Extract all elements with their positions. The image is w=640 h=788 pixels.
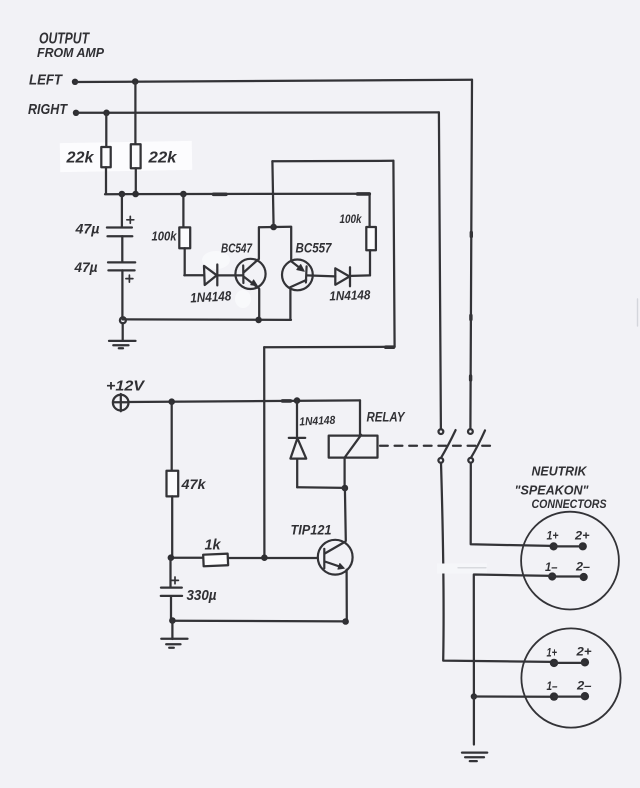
diode D3 1N4148 flyback bbox=[289, 401, 345, 488]
pin dot J2 2+ bbox=[581, 658, 589, 666]
white-out blob near Q1 lead bbox=[235, 290, 251, 308]
wire LEFT output line bbox=[75, 80, 472, 82]
svg-text:100k: 100k bbox=[340, 212, 363, 226]
speakon connector J1 (top) bbox=[521, 512, 619, 610]
white-out blob near D1 bbox=[202, 251, 230, 269]
wire Q3 emitter down bbox=[345, 570, 347, 622]
wire J1 1- to ground rail bbox=[474, 575, 552, 697]
wire S2 to top speakon 1+ bbox=[471, 463, 551, 546]
wire J1 1+ to 2+ bbox=[554, 545, 583, 547]
svg-text:FROM AMP: FROM AMP bbox=[37, 46, 105, 60]
wire emitter bus bbox=[122, 318, 291, 321]
pen blob on bus (left) bbox=[214, 193, 227, 197]
junction dot on LEFT line bbox=[132, 78, 139, 85]
wire LEFT vertical drop to relay contact S2 bbox=[470, 80, 472, 430]
svg-text:47k: 47k bbox=[180, 477, 207, 492]
wire RIGHT output line bbox=[76, 111, 439, 114]
svg-text:"SPEAKON": "SPEAKON" bbox=[515, 484, 590, 498]
junction dot R5/R6/C3 bbox=[168, 554, 175, 561]
svg-text:1N4148: 1N4148 bbox=[329, 287, 371, 303]
pen nubs on LEFT drop wire bbox=[469, 233, 473, 381]
svg-text:RIGHT: RIGHT bbox=[28, 102, 68, 118]
svg-text:2–: 2– bbox=[576, 679, 592, 693]
white-out streak near speakon wires bbox=[437, 564, 487, 574]
wire relay bottom lead bbox=[343, 458, 345, 488]
resistor R3 100k (left) bbox=[179, 194, 190, 275]
pin dot J2 1- bbox=[550, 692, 558, 700]
svg-text:2+: 2+ bbox=[574, 529, 590, 543]
wire RIGHT vertical drop to relay contact S1 bbox=[439, 112, 441, 429]
terminal dot LEFT input bbox=[72, 79, 78, 85]
wire ground rail down bbox=[473, 697, 475, 745]
speakon connector J2 (bottom) bbox=[521, 628, 620, 727]
label OUTPUT FROM AMP bbox=[37, 31, 105, 61]
wire +12V rail bbox=[128, 400, 360, 402]
faint scan artifact right edge bbox=[637, 299, 639, 326]
svg-text:1k: 1k bbox=[205, 538, 222, 554]
svg-text:1N4148: 1N4148 bbox=[190, 288, 232, 305]
ground symbol (middle) bbox=[161, 639, 187, 648]
relay contact S1 (right channel) bbox=[438, 429, 455, 463]
wire right vertical feedback bbox=[393, 161, 394, 347]
pen blob on bus (right) bbox=[358, 192, 370, 196]
junction dot rail/R5 bbox=[168, 398, 175, 405]
pin dot J1 2- bbox=[580, 573, 588, 581]
wire Q2 collector down bbox=[289, 289, 291, 320]
relay K1 coil box bbox=[329, 435, 378, 458]
svg-text:47µ: 47µ bbox=[74, 222, 99, 237]
svg-text:330µ: 330µ bbox=[187, 588, 218, 604]
junction dot ground rail bbox=[471, 693, 477, 699]
junction dot bus/R3 bbox=[180, 191, 187, 198]
wire summing bus bbox=[105, 193, 370, 196]
wire collector bracket bbox=[259, 226, 290, 229]
wire Q2 emitter up bbox=[290, 227, 292, 261]
pin dot J1 1+ bbox=[550, 542, 558, 550]
ground symbol (right) bbox=[462, 753, 487, 762]
wire Q1 collector up bbox=[258, 227, 260, 259]
junction dot relay/D3/Q3 bbox=[342, 485, 349, 492]
diode D2 1N4148 (right) bbox=[307, 267, 370, 286]
svg-text:1N4148: 1N4148 bbox=[299, 415, 336, 429]
wire top feedback line bbox=[272, 160, 393, 163]
pin dot J2 2- bbox=[581, 692, 589, 700]
dashed mechanical link relay to contacts bbox=[378, 445, 492, 447]
wire rail drop to relay bbox=[359, 400, 361, 435]
transistor Q3 TIP121 bbox=[318, 540, 353, 575]
svg-text:47µ: 47µ bbox=[73, 260, 97, 275]
plus mark C2 bbox=[126, 275, 133, 282]
svg-text:1+: 1+ bbox=[547, 529, 559, 543]
svg-text:RELAY: RELAY bbox=[367, 410, 407, 425]
svg-text:2–: 2– bbox=[575, 560, 590, 574]
junction dot base node / feedback bbox=[261, 554, 268, 561]
svg-text:1+: 1+ bbox=[547, 646, 558, 660]
power symbol +12V bbox=[113, 394, 129, 411]
wire bracket riser bbox=[272, 161, 273, 227]
capacitor C2 47u (bottom) bbox=[108, 236, 135, 317]
pin dot J2 1+ bbox=[550, 659, 558, 667]
resistor R1 22k (left) bbox=[101, 113, 110, 194]
pin dot J1 1- bbox=[548, 572, 556, 580]
wire to ground (middle) bbox=[171, 621, 173, 640]
pen blob at feedback corner bbox=[386, 345, 394, 349]
junction dot Q1 emitter / bus bbox=[255, 317, 262, 324]
transistor Q1 BC547 bbox=[235, 259, 265, 289]
resistor R4 100k (right) bbox=[366, 194, 376, 276]
capacitor C1 47u (top) bbox=[107, 194, 132, 236]
wire feedback mid horizontal bbox=[264, 346, 394, 349]
white-out patch behind 22k labels bbox=[60, 141, 192, 172]
wire emitter ground return bbox=[172, 620, 345, 623]
junction dot on RIGHT line bbox=[103, 110, 110, 117]
svg-text:1–: 1– bbox=[545, 560, 558, 574]
terminal dot RIGHT input bbox=[73, 110, 79, 116]
junction dot emitter/ground line bbox=[342, 618, 349, 625]
svg-text:TIP121: TIP121 bbox=[291, 523, 332, 538]
svg-text:2+: 2+ bbox=[575, 645, 591, 659]
wire to ground (left) bbox=[122, 323, 124, 341]
wire Q1 emitter down bbox=[258, 289, 260, 320]
svg-text:LEFT: LEFT bbox=[29, 73, 63, 89]
capacitor C3 330u bbox=[161, 558, 182, 621]
faint erased line residue bbox=[458, 567, 486, 569]
relay contact S2 (left channel) bbox=[468, 429, 485, 463]
resistor R5 47k bbox=[167, 402, 179, 558]
svg-text:NEUTRIK: NEUTRIK bbox=[532, 465, 588, 479]
svg-text:1–: 1– bbox=[547, 679, 558, 693]
transistor Q2 BC557 bbox=[282, 260, 313, 291]
pin dot J1 2+ bbox=[579, 542, 587, 550]
svg-text:BC557: BC557 bbox=[296, 241, 333, 256]
junction dot C3/ground bbox=[169, 617, 176, 624]
wire J1 1- to 2- bbox=[552, 575, 584, 577]
wire base node bbox=[171, 557, 203, 559]
junction dot bus/R2 bbox=[132, 191, 139, 198]
wire feedback drop to base node bbox=[263, 347, 265, 557]
svg-text:+12V: +12V bbox=[106, 378, 146, 395]
svg-text:22k: 22k bbox=[65, 150, 94, 167]
resistor R2 22k (right) bbox=[131, 82, 141, 194]
svg-text:CONNECTORS: CONNECTORS bbox=[532, 499, 607, 511]
junction dot bracket bbox=[270, 224, 277, 231]
diode D1 1N4148 (left) bbox=[184, 265, 242, 286]
plus mark C3 bbox=[172, 577, 179, 584]
svg-text:BC547: BC547 bbox=[221, 241, 253, 256]
junction dot rail/D3 bbox=[294, 397, 301, 404]
pen blob on rail bbox=[283, 399, 291, 403]
wire S1 to bottom speakon 1+ bbox=[441, 463, 551, 662]
wire Q3 collector bbox=[344, 488, 347, 541]
junction dot bus/caps bbox=[119, 191, 126, 198]
node: open junction at cap bottom bbox=[120, 317, 126, 323]
svg-text:OUTPUT: OUTPUT bbox=[39, 31, 90, 48]
resistor R6 1k bbox=[203, 554, 318, 567]
plus mark C1 bbox=[127, 216, 134, 223]
wire J2 1+ to 2+ bbox=[554, 662, 585, 664]
svg-text:100k: 100k bbox=[152, 230, 178, 244]
svg-text:22k: 22k bbox=[147, 150, 178, 167]
ground symbol (left) bbox=[109, 341, 136, 348]
wire J2 1- to 2- bbox=[554, 695, 585, 697]
wire ground rail to J2 1- bbox=[474, 695, 554, 697]
